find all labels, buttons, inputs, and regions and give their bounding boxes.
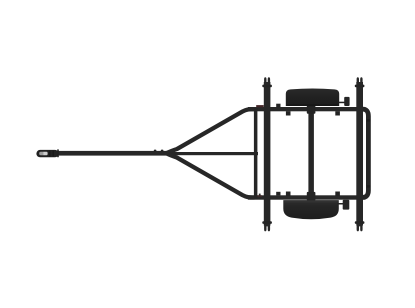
coupler notch lines xyxy=(49,151,50,157)
bottom side rail xyxy=(248,195,366,199)
tongue center spine xyxy=(166,152,258,155)
coupler pin xyxy=(57,149,59,157)
top tire bottom shadow xyxy=(287,104,338,106)
coupler latch xyxy=(39,152,48,155)
red marker strip front-left top xyxy=(256,105,264,107)
axle joint bottom xyxy=(307,192,316,201)
bottom tire top highlight xyxy=(285,200,338,202)
axle joint top xyxy=(307,105,316,114)
right bunk bottom fork xyxy=(357,223,363,231)
rear member bolts xyxy=(367,119,370,121)
A-frame top arm xyxy=(167,109,255,153)
right bunk top bolt xyxy=(355,85,365,88)
left bunk top fork xyxy=(264,77,270,85)
spring hanger nubs xyxy=(286,111,291,115)
tongue tube xyxy=(54,151,168,156)
bottom hub connector xyxy=(338,203,344,205)
small bracket top rail xyxy=(276,104,280,108)
rear crossmember xyxy=(361,109,368,197)
right bunk top fork xyxy=(357,77,363,85)
axle xyxy=(308,110,314,196)
faint red marker bottom xyxy=(257,195,262,196)
front crossmember xyxy=(254,108,258,198)
right bunk bottom bolt xyxy=(355,221,365,224)
top tire xyxy=(286,89,339,107)
small nub bottom rail left of bunk xyxy=(259,194,261,196)
left bunk bottom fork xyxy=(264,223,270,231)
small bracket bottom rail xyxy=(276,192,280,196)
top hub connector xyxy=(339,102,345,104)
right bunk rail xyxy=(356,82,363,226)
A-frame bottom arm xyxy=(167,153,255,197)
coupler body xyxy=(36,150,58,157)
left bunk bottom bolt xyxy=(262,221,272,224)
bottom hub box xyxy=(343,200,350,210)
left bunk top bolt xyxy=(262,85,272,88)
top side rail xyxy=(248,107,366,111)
left bunk rail xyxy=(264,82,271,226)
jack-bracket bolts on tongue xyxy=(154,150,157,152)
top hub box xyxy=(344,97,349,106)
bottom tire xyxy=(283,200,339,219)
